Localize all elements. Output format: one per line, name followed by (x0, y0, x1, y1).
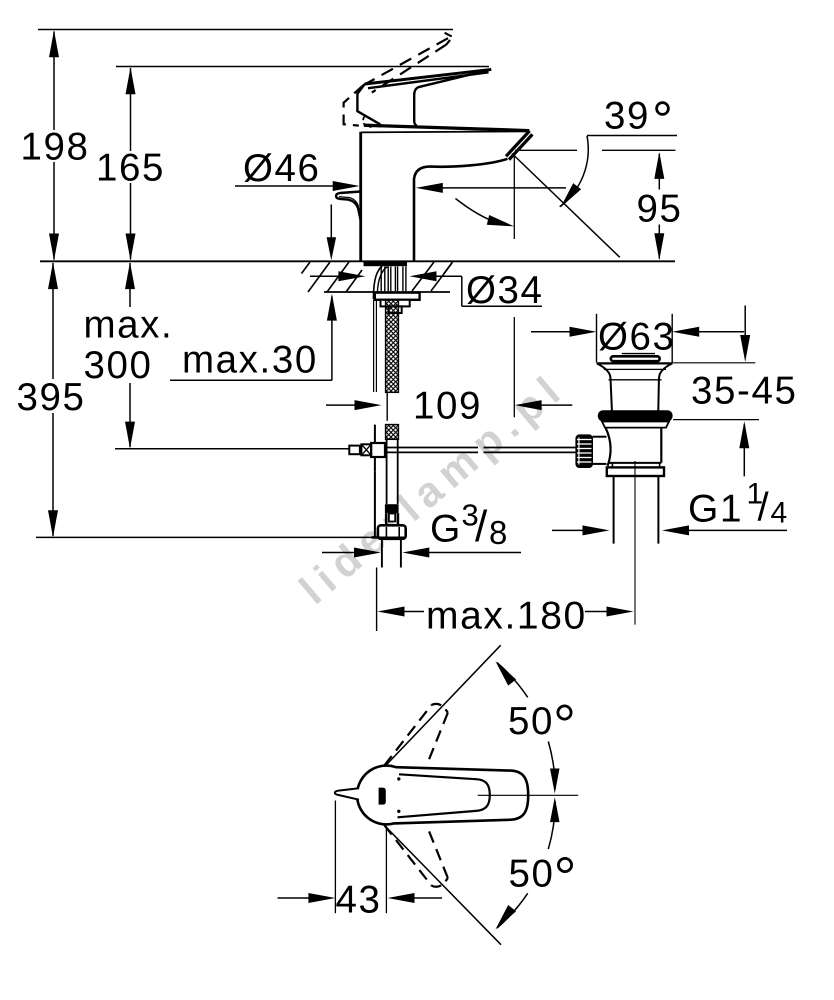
rubber gasket (black band) (598, 410, 673, 421)
dashed raised handle tip (445, 33, 453, 45)
G3/8 hex nut (378, 525, 406, 539)
dimension max.30 upper arrow (330, 205, 332, 241)
dimension G3/8 arrows (322, 552, 358, 554)
handle pivot dots (397, 777, 400, 780)
svg-text:max.30: max.30 (182, 339, 318, 382)
flow direction arc arrow (456, 199, 501, 224)
pop-up plug disc (611, 356, 660, 361)
counter cross-section hatching (302, 262, 311, 274)
braided hose upper (crosshatched) (386, 300, 399, 393)
pull rod joint T-piece (349, 446, 360, 455)
drain flange top line (597, 362, 673, 364)
upper 50deg arc (497, 663, 528, 698)
drain flange joint line (609, 379, 662, 381)
handle centerline (478, 794, 579, 796)
dimension 35-45 upper (744, 306, 746, 337)
counter top line (40, 260, 675, 262)
knurled adjuster knob (575, 434, 593, 468)
hose crimp black band (385, 504, 399, 513)
svg-text:300: 300 (84, 344, 153, 387)
dimension 39deg arc (560, 136, 589, 207)
dashed raised handle underside (372, 45, 447, 93)
svg-text:max.180: max.180 (426, 595, 587, 638)
svg-text:Ø63: Ø63 (598, 316, 676, 359)
second reference line (handle lowered height) (116, 66, 489, 68)
hose end tube (381, 540, 383, 568)
drain body to ring verticals (611, 463, 613, 468)
svg-text:/: / (758, 486, 771, 530)
dashed pivot arc (363, 117, 374, 127)
svg-text:50: 50 (508, 700, 554, 743)
spout tip (top view) (335, 788, 359, 799)
handle center black mark (379, 788, 386, 805)
drain body right edge (660, 428, 662, 463)
svg-text:109: 109 (413, 385, 482, 428)
aerator level reference line (515, 149, 577, 151)
svg-text:43: 43 (335, 879, 381, 922)
svg-text:95: 95 (636, 188, 682, 231)
dashed raised handle top edge (363, 37, 451, 86)
svg-text:G: G (430, 508, 462, 551)
max.300 lower reference line (115, 448, 349, 450)
svg-text:max.: max. (84, 304, 174, 347)
dimension 95 line (658, 154, 660, 190)
bottom reference line (36, 536, 372, 538)
svg-text:8: 8 (489, 514, 509, 551)
lower 50deg diagonal (385, 826, 501, 944)
svg-text:/: / (475, 502, 489, 551)
spout top inner edge (361, 131, 528, 132)
dimension 43 arrows (278, 897, 311, 899)
dimension 35-45 lower (739, 421, 749, 448)
gasket lower flange (602, 422, 669, 428)
svg-text:395: 395 (16, 376, 85, 419)
dimension diameter46 leader (235, 185, 334, 187)
aerator face inner bar (509, 134, 532, 159)
counter bottom line (324, 291, 450, 293)
drain flange left curve (597, 363, 611, 380)
drain tailpipe (613, 476, 615, 544)
drain flange right curve (659, 363, 672, 380)
under-counter spacer steps (375, 293, 420, 300)
aerator hook outlet on body left (336, 192, 361, 221)
svg-text:Ø46: Ø46 (243, 147, 321, 190)
handle outer outline (top view) (357, 766, 528, 825)
dashed raised handle back outline (344, 85, 364, 125)
dimension 109 left (326, 404, 356, 406)
dimension G1 1/4 arrows (552, 529, 584, 531)
upper dashed rotated handle (384, 705, 431, 766)
svg-text:165: 165 (96, 147, 165, 190)
svg-text:50: 50 (508, 852, 554, 895)
rod boss (593, 436, 607, 438)
dimension max.180 extension left (376, 568, 378, 632)
coupling ring (607, 467, 664, 476)
spout top edge (thick) (364, 125, 530, 130)
drain centerline (634, 461, 636, 625)
pull rod end foot (372, 536, 380, 539)
hose smooth section (386, 439, 388, 504)
watermark liderlamp.pl (290, 363, 574, 613)
top reference line (handle raised height) (38, 29, 453, 31)
shank internal tubes (380, 267, 382, 292)
svg-text:4: 4 (771, 497, 789, 530)
dimension 109 right (515, 400, 542, 410)
svg-text:39: 39 (604, 95, 650, 138)
handle top edge line 2 (368, 72, 489, 88)
lower dashed rotated handle (384, 825, 431, 886)
drain body bottom edge (608, 462, 662, 464)
pull rod upper section (373, 300, 375, 392)
dimension 43 extension lines (334, 801, 336, 914)
handle inner outline (top view) (398, 774, 490, 817)
horizontal pull rod right part (484, 447, 576, 449)
svg-text:Ø34: Ø34 (466, 269, 544, 312)
lower 50deg arc (497, 893, 528, 928)
horizontal pull rod left part (385, 447, 478, 449)
dimension diameter46 inner arrow (416, 183, 443, 193)
dimension max.180 (378, 607, 405, 617)
drain flange highlight line (604, 368, 666, 370)
water stream direction line (512, 154, 620, 258)
aerator face outer bar (506, 131, 530, 156)
pull rod lower section (374, 425, 376, 472)
hose crimp detail (385, 513, 388, 525)
aerator vertical extension line (513, 154, 515, 239)
dimension max.30 leader (170, 379, 332, 381)
dimension diameter34 arrows (310, 275, 338, 277)
svg-text:198: 198 (20, 126, 89, 169)
hose bend inside counter (373, 264, 385, 300)
dimension 395 line (52, 263, 54, 379)
dimension 165 line (130, 68, 132, 151)
drain body left edge (606, 428, 611, 466)
dimension diameter63 extension lines (596, 314, 598, 363)
dimension diameter63 arrows (531, 331, 571, 333)
braided hose break block (crosshatched) (386, 425, 399, 440)
drain upper cylinder (611, 380, 612, 410)
faucet body left edge (359, 132, 362, 261)
upper 50deg diagonal (383, 645, 500, 768)
handle underside and neck front (414, 69, 491, 125)
handle back outline (357, 84, 380, 124)
dimension 198 line (53, 32, 55, 131)
svg-text:35-45: 35-45 (691, 370, 797, 413)
handle top edge line 1 (365, 69, 492, 84)
shank flange under body (364, 262, 408, 266)
dimension 39deg reference line (587, 135, 677, 137)
dimension max.300 line (129, 263, 131, 307)
faucet body right edge and spout underside (414, 159, 508, 261)
svg-text:G1: G1 (688, 488, 743, 531)
